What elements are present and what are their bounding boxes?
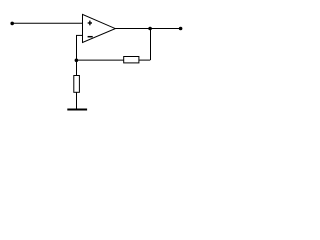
node OUT terminal dot: [179, 27, 183, 31]
pin + label: [88, 22, 92, 23]
wire op-amp output: [115, 28, 180, 30]
op-amp U1: [83, 14, 116, 42]
wire R2 to feedback riser: [139, 59, 150, 61]
wire inverting input down to node A: [76, 35, 78, 60]
wire op-amp inverting input horizontal: [76, 34, 83, 36]
node A junction dot: [75, 59, 79, 63]
wire R1 to ground: [76, 92, 78, 108]
node B junction dot (output/feedback): [148, 27, 152, 31]
wire node A down to R1: [76, 60, 78, 75]
wire node A to R2: [76, 59, 123, 61]
wire input to op-amp +: [12, 22, 82, 24]
resistor R2 (feedback, horizontal): [124, 57, 139, 63]
pin - label: [88, 36, 93, 38]
ground: [67, 109, 87, 111]
wire feedback riser up to output: [150, 29, 152, 61]
resistor R1 (vertical, to ground): [74, 76, 80, 93]
node IN terminal dot: [10, 22, 14, 26]
